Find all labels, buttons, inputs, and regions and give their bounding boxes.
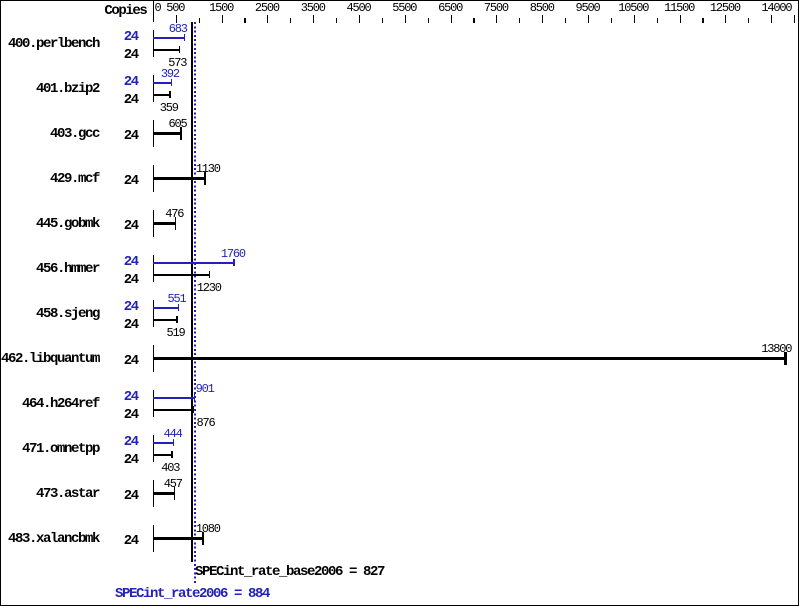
base bar 400.perlbench = 573 [153,49,180,51]
axis tick 3500 [313,15,314,23]
copies label 24 (peak) for 471.omnetpp [124,441,138,443]
copies label 24 (base) for 401.bzip2 [124,99,138,101]
axis tick 9000 [565,18,566,23]
base bar right end cap 473.astar [174,487,176,501]
axis tick 6000 [428,18,429,23]
peak bar right end cap 401.bzip2 [171,79,173,86]
peak bar 471.omnetpp = 444 [153,442,174,444]
axis label 10500 [618,7,648,9]
base value label 605 [169,123,187,125]
benchmark label 462.libquantum [1,358,99,360]
base value label 403 [161,467,179,469]
base bar right end cap 445.gobmk [175,217,177,231]
left end cap for 456.hmmer bars [153,255,154,283]
copies label 24 (base) for 458.sjeng [124,324,138,326]
left end cap for 401.bzip2 bars [153,75,154,103]
base bar 473.astar = 457 [153,492,174,495]
axis tick 6500 [451,15,452,23]
base value label 476 [165,213,183,215]
base bar 445.gobmk = 476 [153,222,175,225]
base bar 429.mcf = 1130 [153,177,205,180]
peak value label 444 [164,433,182,435]
axis label 1500 [209,7,233,9]
benchmark label 401.bzip2 [36,88,99,90]
base bar 401.bzip2 = 359 [153,94,170,96]
peak bar 456.hmmer = 1760 [153,262,234,264]
base value label 876 [197,422,215,424]
benchmark label 456.hmmer [36,268,99,270]
peak value label 1760 [221,253,245,255]
left end cap for 445.gobmk bar [153,210,154,238]
base value label 457 [164,483,182,485]
summary text SPECint_rate2006 = 884 [115,593,269,595]
copies label 24 (peak) for 458.sjeng [124,306,138,308]
axis tick 2000 [244,18,245,23]
base bar right end cap 462.libquantum [784,352,787,366]
benchmark label 483.xalancbmk [8,538,99,540]
base bar 471.omnetpp = 403 [153,454,172,456]
axis tick 10000 [611,18,612,23]
axis tick 1500 [222,15,223,23]
base value label 573 [168,62,186,64]
axis label 2500 [255,7,279,9]
summary text SPECint_rate_base2006 = 827 [195,571,384,573]
axis tick 12000 [702,18,703,23]
peak bar 464.h264ref = 901 [153,397,195,399]
copies label 24 for 445.gobmk [124,225,138,227]
peak bar right end cap 400.perlbench [184,34,186,41]
base bar right end cap 464.h264ref [193,406,195,413]
base bar right end cap 429.mcf [204,172,206,186]
peak bar right end cap 471.omnetpp [173,439,175,446]
base bar right end cap 458.sjeng [176,316,178,323]
base bar 403.gcc = 605 [153,132,181,135]
copies label 24 (peak) for 464.h264ref [124,396,138,398]
left end cap for 464.h264ref bars [153,390,154,418]
left end cap for 429.mcf bar [153,165,154,193]
peak bar right end cap 464.h264ref [194,394,196,401]
header separator line [153,1,154,22]
base bar right end cap 471.omnetpp [171,451,173,458]
axis tick 5000 [382,18,383,23]
base value label 1230 [197,287,221,289]
axis label 6500 [438,7,462,9]
axis tick 3000 [290,18,291,23]
reference line SPECint_rate_base2006 = 827 (black solid) [191,22,193,562]
peak bar 401.bzip2 = 392 [153,82,171,84]
benchmark label 403.gcc [50,133,99,135]
left end cap for 483.xalancbmk bar [153,525,154,553]
copies label 24 for 462.libquantum [124,360,138,362]
axis label 8500 [530,7,554,9]
axis tick 5500 [405,15,406,23]
axis label 12500 [710,7,740,9]
copies label 24 for 403.gcc [124,135,138,137]
left end cap for 400.perlbench bars [153,30,154,58]
base value label 1130 [196,168,220,170]
base bar right end cap 483.xalancbmk [202,532,204,546]
axis tick 4000 [336,18,337,23]
axis tick 500 [176,15,177,23]
axis label 11500 [664,7,694,9]
benchmark label 445.gobmk [36,223,99,225]
copies label 24 (base) for 456.hmmer [124,279,138,281]
peak bar right end cap 458.sjeng [178,304,180,311]
axis tick 8500 [542,15,543,23]
base bar 458.sjeng = 519 [153,319,177,321]
base bar right end cap 400.perlbench [179,46,181,53]
peak bar right end cap 456.hmmer [233,259,235,266]
copies label 24 (peak) for 401.bzip2 [124,81,138,83]
axis label 5500 [392,7,416,9]
benchmark label 458.sjeng [36,313,99,315]
peak value label 551 [168,298,186,300]
left end cap for 473.astar bar [153,480,154,508]
axis tick 13000 [748,18,749,23]
left end cap for 462.libquantum bar [153,345,154,373]
base bar 483.xalancbmk = 1080 [153,537,203,540]
left end cap for 458.sjeng bars [153,300,154,328]
base value label 519 [167,332,185,334]
left end cap for 403.gcc bar [153,120,154,148]
axis label 0 [155,7,161,9]
axis tick 7500 [496,15,497,23]
copies label 24 for 473.astar [124,495,138,497]
copies label 24 (base) for 400.perlbench [124,54,138,56]
peak bar 458.sjeng = 551 [153,307,179,309]
axis tick 2500 [267,15,268,23]
left end cap for 471.omnetpp bars [153,435,154,463]
axis tick 7000 [473,18,474,23]
axis tick 1000 [199,18,200,23]
base bar right end cap 456.hmmer [209,271,211,278]
base bar 462.libquantum = 13800 [153,357,785,360]
copies label 24 (base) for 471.omnetpp [124,459,138,461]
axis tick 13500 [771,15,772,23]
axis label 9500 [576,7,600,9]
benchmark label 471.omnetpp [22,448,99,450]
copies label 24 for 483.xalancbmk [124,540,138,542]
copies label 24 (base) for 464.h264ref [124,414,138,416]
axis label 7500 [484,7,508,9]
peak value label 392 [161,73,179,75]
benchmark label 473.astar [36,493,99,495]
base bar 456.hmmer = 1230 [153,274,210,276]
peak value label 901 [196,388,214,390]
axis label 14000 [761,7,791,9]
axis tick 14000 [794,15,795,23]
axis tick 4500 [359,15,360,23]
axis tick 11500 [680,15,681,23]
benchmark label 464.h264ref [22,403,99,405]
axis tick 8000 [519,18,520,23]
base bar right end cap 401.bzip2 [169,91,171,98]
base bar 464.h264ref = 876 [153,409,194,411]
axis label 4500 [347,7,371,9]
header label Copies [104,10,146,12]
base value label 359 [160,107,178,109]
base value label 13800 [761,348,791,350]
benchmark label 429.mcf [50,178,99,180]
peak value label 683 [169,28,187,30]
axis tick 11000 [657,18,658,23]
axis label 3500 [301,7,325,9]
copies label 24 (peak) for 400.perlbench [124,36,138,38]
reference line SPECint_rate2006 = 884 (blue dotted) [194,22,196,583]
benchmark label 400.perlbench [8,43,99,45]
base bar right end cap 403.gcc [180,127,182,141]
axis tick 9500 [588,15,589,23]
peak bar 400.perlbench = 683 [153,37,185,39]
copies label 24 for 429.mcf [124,180,138,182]
base value label 1080 [196,528,220,530]
axis label 500 [166,7,184,9]
copies label 24 (peak) for 456.hmmer [124,261,138,263]
axis tick 12500 [725,15,726,23]
axis tick 10500 [634,15,635,23]
